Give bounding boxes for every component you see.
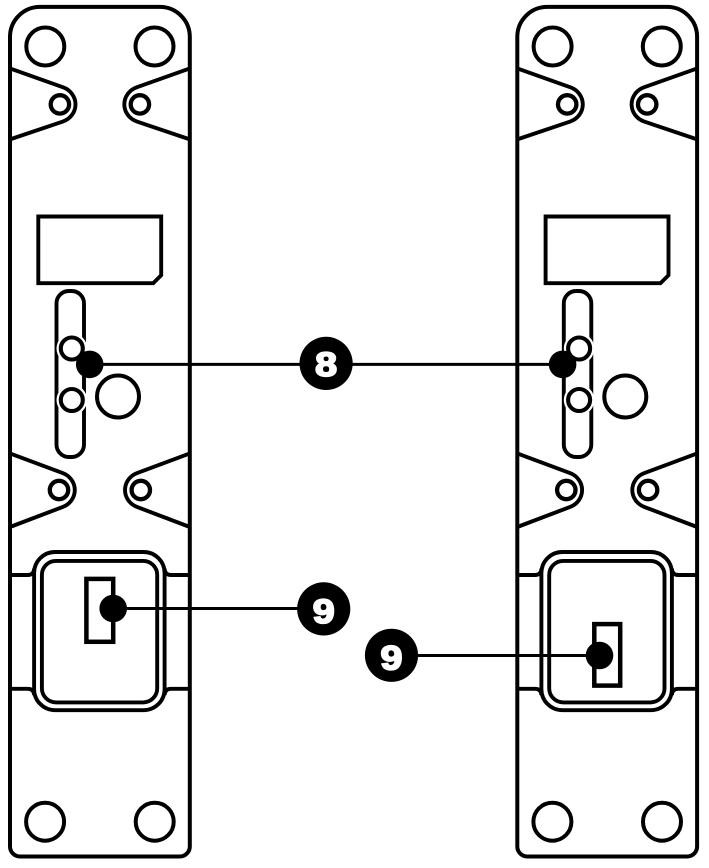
svg-text:9: 9 [313,592,335,630]
svg-text:8: 8 [315,345,337,383]
svg-text:9: 9 [381,639,403,677]
